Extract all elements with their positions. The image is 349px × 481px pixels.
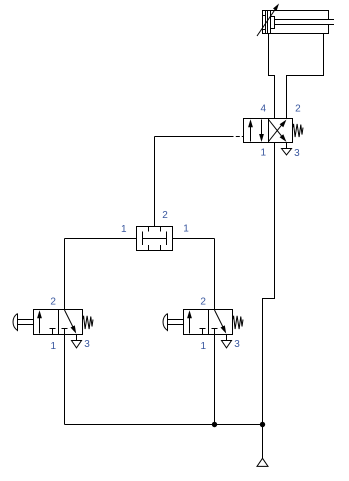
svg-text:1: 1 [51,341,57,352]
svg-text:1: 1 [261,148,267,159]
svg-text:1: 1 [201,341,207,352]
svg-text:1: 1 [121,224,127,235]
svg-text:3: 3 [294,148,300,159]
svg-text:2: 2 [50,296,56,307]
svg-text:4: 4 [261,103,267,114]
svg-text:1: 1 [183,224,189,235]
svg-text:3: 3 [84,339,90,350]
svg-text:2: 2 [162,210,168,221]
svg-text:3: 3 [234,339,240,350]
svg-text:2: 2 [200,296,206,307]
svg-text:2: 2 [295,103,301,114]
